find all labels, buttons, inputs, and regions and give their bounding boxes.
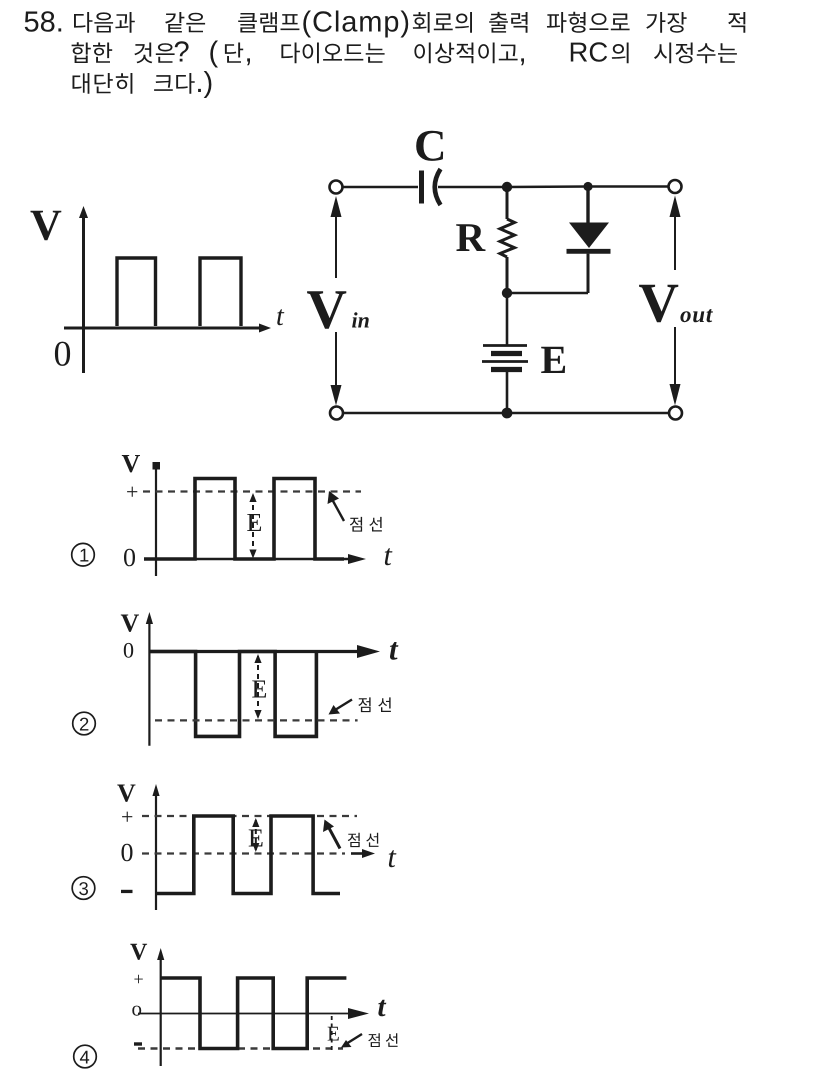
- choice 2 jeomseon label: [358, 697, 391, 712]
- input waveform 0 label: [55, 342, 70, 366]
- Vin label: [307, 291, 369, 329]
- choice 3 V label: [117, 785, 135, 802]
- battery E label: [541, 347, 565, 373]
- bottom wire left: [343, 412, 507, 415]
- choice 4 waveform: [161, 978, 347, 1049]
- choice 2 dashed clamp level line: [155, 719, 358, 721]
- diode D1 triangle: [569, 223, 609, 249]
- node B junction dot: [583, 182, 592, 191]
- terminal top-left: [330, 181, 343, 194]
- diode D1 lead down: [587, 254, 590, 293]
- question line 2 Korean text: [72, 42, 737, 63]
- input waveform square pulses: [117, 258, 156, 326]
- choice 2 waveform: [149, 652, 316, 737]
- terminal bottom-left: [330, 407, 343, 420]
- choice 4 dashed-line callout arrow: [346, 1034, 362, 1044]
- choice 4 vertical axis: [160, 953, 162, 1066]
- choice 4 bottom dashed level line: [138, 1047, 343, 1049]
- bottom wire right: [507, 412, 669, 415]
- Vout label: [639, 285, 713, 323]
- choice 1 zero label: [124, 549, 135, 567]
- wire node A to node B: [507, 185, 588, 188]
- choice 3 vertical axis: [155, 789, 157, 910]
- choice 2 V label: [121, 615, 139, 632]
- choice 4 V label: [130, 944, 147, 960]
- choice 2 t axis thick with arrow: [149, 650, 362, 653]
- choice 2 t label: [390, 642, 399, 660]
- battery E plate 4 (short thick): [491, 367, 522, 372]
- choice 4 plus label: [134, 975, 142, 983]
- choice 3 zero dashed line: [142, 852, 345, 854]
- resistor R label: [456, 224, 485, 251]
- choice 3 E annotation dashed arrow: [255, 820, 257, 850]
- choice 4 jeomseon label: [368, 1033, 397, 1047]
- capacitor C right plate (curved): [435, 169, 441, 205]
- question line 1 Korean text: [74, 12, 745, 33]
- input waveform t label: [277, 309, 284, 325]
- capacitor C left plate: [419, 171, 424, 204]
- choice 2 zero label: [124, 643, 133, 658]
- input waveform vertical axis arrowhead: [79, 206, 88, 218]
- Vin arrow down: [335, 332, 337, 386]
- choice 4 circled number: [74, 1045, 97, 1068]
- choice 1 E label: [247, 514, 261, 531]
- resistor R (zigzag) with leads: [506, 192, 509, 219]
- choice 1 circled number: [72, 543, 95, 566]
- wire node C to diode bottom: [507, 292, 588, 295]
- input waveform horizontal axis arrowhead: [259, 324, 271, 333]
- question number 58.: [25, 11, 409, 38]
- choice 3 minus label: [121, 890, 133, 893]
- wire node B to terminal top-right: [588, 185, 669, 188]
- node C junction dot (below resistor): [502, 288, 512, 298]
- capacitor C label: [416, 131, 443, 161]
- choice 3 jeomseon label: [348, 833, 379, 847]
- input waveform horizontal axis: [64, 327, 264, 330]
- diode D1 lead from node B: [586, 191, 589, 223]
- choice 1 jeomseon label: [350, 517, 382, 532]
- choice 3 circled number: [72, 877, 95, 900]
- choice 1 dashed level line: [143, 490, 361, 492]
- node A junction dot: [502, 182, 512, 192]
- terminal bottom-right: [669, 407, 682, 420]
- wire capacitor to node A: [438, 186, 507, 189]
- choice 2 vertical axis: [148, 617, 150, 746]
- choice 3 dashed-line callout arrow: [329, 828, 340, 849]
- choice 2 dashed-line callout arrow: [335, 700, 352, 711]
- diode D1 cathode bar: [567, 249, 611, 254]
- choice 2 E label: [252, 681, 266, 698]
- wire battery to bottom node: [506, 371, 509, 413]
- question line 3 Korean text: [73, 73, 195, 94]
- choice 1 t axis: [144, 558, 352, 560]
- wire top-left to capacitor: [343, 186, 419, 189]
- choice 3 top dashed level line: [142, 815, 357, 817]
- question line 3 punct .): [198, 71, 211, 98]
- choice 1 plus label: [127, 487, 137, 497]
- input waveform V axis label: [31, 211, 62, 241]
- terminal top-right: [669, 180, 682, 193]
- wire node C down to battery: [506, 293, 509, 345]
- choice 1 E annotation dashed arrow: [252, 496, 254, 556]
- choice 4 zero label: [132, 1006, 141, 1016]
- battery E plate 1 (long): [483, 344, 527, 347]
- choice 1 waveform: [144, 479, 344, 560]
- choice 3 zero axis arrowhead: [351, 852, 366, 855]
- choice 3 plus label: [122, 812, 132, 822]
- choice 3 E label: [249, 830, 263, 847]
- choice 1 t label: [385, 548, 393, 565]
- choice 1 V label: [122, 455, 140, 472]
- input waveform vertical axis: [82, 214, 85, 373]
- choice 3 waveform: [156, 816, 340, 894]
- bottom node junction dot: [502, 408, 513, 419]
- choice 3 zero label: [122, 844, 133, 862]
- Vout arrow up: [674, 216, 676, 270]
- choice 4 zero axis: [138, 1013, 352, 1015]
- Vout arrow down: [674, 327, 676, 385]
- battery E plate 3 (long): [482, 360, 528, 363]
- choice 4 t label: [378, 1000, 386, 1017]
- choice 1 vertical axis: [155, 463, 157, 576]
- choice 2 E annotation dashed arrow: [257, 656, 259, 717]
- question line 2 Latin/punct: [175, 41, 608, 68]
- choice 3 t label: [389, 850, 397, 867]
- choice 2 circled number: [73, 712, 96, 735]
- Vin arrow up: [335, 214, 337, 278]
- choice 4 minus label: [134, 1042, 142, 1045]
- battery E plate 2 (short thick): [491, 351, 522, 356]
- choice 1 dashed-line callout arrow: [333, 501, 344, 521]
- choice 4 E annotation: [331, 1016, 333, 1052]
